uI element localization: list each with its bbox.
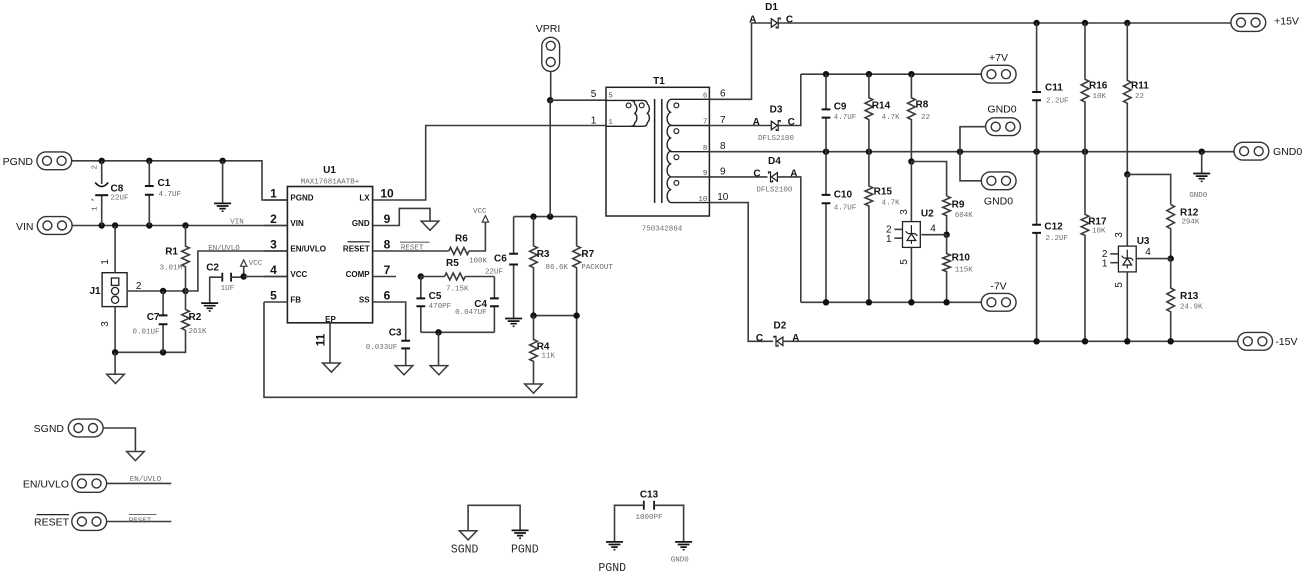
ground SGND: [107, 374, 125, 383]
pin 3 label U3: [1114, 232, 1125, 238]
svg-text:EN/UVLO: EN/UVLO: [208, 245, 240, 253]
junction: [1124, 338, 1130, 344]
junction: [1124, 20, 1130, 26]
svg-text:A: A: [792, 333, 799, 344]
svg-text:R17: R17: [1088, 217, 1107, 228]
pin 6 inner label T1: [703, 93, 708, 101]
svg-text:R4: R4: [537, 341, 550, 352]
svg-text:DFLS2100: DFLS2100: [758, 135, 795, 143]
junction: [1168, 255, 1174, 261]
svg-text:EP: EP: [325, 315, 336, 324]
capacitor C8: [92, 161, 129, 226]
wire: [264, 199, 287, 201]
svg-text:R12: R12: [1180, 208, 1199, 219]
svg-text:6: 6: [703, 93, 708, 101]
pin 3 label J1: [100, 321, 111, 327]
pin 7 inner label T1: [703, 119, 708, 127]
svg-text:1: 1: [591, 116, 597, 127]
svg-text:5: 5: [591, 89, 597, 100]
svg-text:C3: C3: [389, 328, 402, 339]
svg-text:C2: C2: [206, 263, 219, 274]
svg-text:294K: 294K: [1181, 219, 1200, 227]
IC U1 MAX17681AATB+: [287, 165, 372, 324]
terminal EN/UVLO: [23, 475, 107, 493]
wire: [550, 99, 606, 101]
svg-text:10K: 10K: [1092, 228, 1106, 236]
resistor R17: [1081, 152, 1107, 342]
svg-text:R2: R2: [189, 312, 202, 323]
junction: [866, 71, 872, 77]
pin 10 label U1: [380, 186, 394, 200]
junction: [146, 158, 152, 164]
junction: [866, 149, 872, 155]
wire: [549, 100, 551, 216]
svg-text:A: A: [749, 15, 756, 26]
ground SGND: [459, 531, 477, 540]
svg-text:RESET: RESET: [343, 245, 370, 254]
resistor R10: [943, 235, 974, 303]
wire: [910, 247, 912, 302]
wire: [709, 203, 773, 342]
wire: [960, 152, 981, 181]
svg-text:7: 7: [720, 115, 726, 126]
wire: [264, 301, 287, 303]
svg-text:EN/UVLO: EN/UVLO: [130, 476, 162, 484]
svg-text:2: 2: [136, 281, 142, 292]
capacitor C3: [366, 328, 410, 366]
svg-text:RESET: RESET: [34, 517, 70, 529]
wire: [107, 482, 172, 484]
svg-text:C1: C1: [158, 178, 171, 189]
wire: [801, 301, 982, 303]
wire: [960, 127, 986, 152]
svg-text:1: 1: [1102, 258, 1108, 269]
junction: [182, 222, 188, 228]
net label EN/UVLO: [130, 476, 162, 484]
diode D2: [756, 320, 799, 346]
svg-text:2.2UF: 2.2UF: [1046, 235, 1069, 243]
label U2: [921, 208, 934, 219]
terminal PGND wire: [70, 161, 287, 200]
svg-text:R9: R9: [952, 200, 965, 211]
wire: [468, 505, 520, 530]
svg-text:R14: R14: [872, 101, 891, 112]
wire: [396, 302, 406, 341]
junction: [1199, 149, 1205, 155]
junction: [160, 349, 166, 355]
svg-text:C10: C10: [834, 190, 853, 201]
wire: [264, 225, 287, 227]
wire: [264, 250, 287, 252]
capacitor C11: [1032, 23, 1068, 152]
svg-text:3: 3: [270, 237, 277, 251]
svg-text:9: 9: [384, 212, 391, 226]
junction: [547, 213, 553, 219]
svg-text:SGND: SGND: [34, 423, 65, 435]
junction: [99, 158, 105, 164]
junction: [1168, 338, 1174, 344]
junction: [908, 71, 914, 77]
svg-text:D2: D2: [774, 320, 787, 331]
ground SGND: [127, 452, 145, 461]
svg-text:R15: R15: [874, 187, 893, 198]
svg-text:PACKOUT: PACKOUT: [581, 264, 613, 272]
wire: [1127, 174, 1170, 204]
pin 4 label U1: [270, 263, 277, 277]
ground SGND: [525, 384, 543, 393]
ground PGND: [214, 203, 231, 211]
wire: [801, 73, 982, 75]
junction: [99, 222, 105, 228]
junction: [908, 158, 914, 164]
svg-text:VIN: VIN: [290, 219, 304, 228]
wire: [911, 162, 946, 197]
label SGND: [451, 544, 479, 557]
svg-text:+15V: +15V: [1274, 16, 1299, 28]
svg-text:115K: 115K: [955, 267, 974, 275]
svg-text:VIN: VIN: [16, 221, 34, 233]
svg-text:SGND: SGND: [451, 544, 479, 557]
resistor R9: [943, 196, 974, 235]
pin 1 label J1: [100, 259, 111, 265]
svg-text:PGND: PGND: [290, 194, 313, 203]
terminal +7V: [981, 52, 1016, 83]
junction: [219, 158, 225, 164]
ground C2: [201, 303, 218, 311]
svg-text:1: 1: [886, 234, 892, 245]
pin 8 inner label T1: [703, 145, 708, 153]
svg-text:A: A: [790, 168, 797, 179]
svg-text:4: 4: [1145, 247, 1151, 258]
terminal VIN: [16, 217, 72, 235]
junction: [435, 329, 441, 335]
wire: [373, 301, 396, 303]
pin 11 label U1: [314, 333, 328, 346]
ground SGND: [421, 221, 439, 230]
wire: [373, 199, 396, 201]
terminal VIN wire: [71, 225, 287, 227]
net label EN/UVLO: [208, 245, 240, 253]
pin 1 stub U3: [1102, 258, 1119, 269]
capacitor C5: [416, 277, 451, 333]
svg-text:VCC: VCC: [473, 208, 487, 216]
pin 9 label U1: [384, 212, 391, 226]
svg-text:1: 1: [608, 119, 613, 127]
wire: [465, 276, 494, 278]
pin 6 label T1: [720, 89, 726, 100]
wire: [469, 223, 485, 252]
svg-text:R5: R5: [446, 258, 459, 269]
svg-text:D3: D3: [770, 105, 783, 116]
label U3: [1137, 236, 1150, 247]
capacitor C12: [1032, 152, 1068, 342]
pin 5 label U1: [270, 288, 277, 302]
pin 6 label U1: [384, 288, 391, 302]
wire: [396, 126, 606, 201]
svg-text:EN/UVLO: EN/UVLO: [290, 245, 326, 254]
capacitor C10: [822, 152, 857, 303]
wire: [421, 276, 445, 278]
svg-text:R7: R7: [581, 249, 594, 260]
svg-text:604K: 604K: [955, 212, 974, 220]
wire: [329, 323, 331, 363]
junction: [908, 299, 914, 305]
svg-text:6: 6: [384, 288, 391, 302]
pin 3 label U1: [270, 237, 277, 251]
svg-text:3.01M: 3.01M: [159, 265, 182, 273]
svg-text:100K: 100K: [469, 258, 488, 266]
svg-text:C13: C13: [640, 489, 659, 500]
net label RESET: [400, 242, 430, 252]
svg-text:9: 9: [703, 170, 708, 178]
resistor R1: [159, 226, 189, 292]
svg-text:86.6K: 86.6K: [546, 264, 569, 272]
svg-text:C: C: [753, 168, 760, 179]
wire: [396, 250, 449, 252]
wire: [373, 225, 396, 227]
svg-text:C7: C7: [147, 312, 160, 323]
wire: [921, 234, 946, 236]
svg-text:4.7UF: 4.7UF: [834, 204, 857, 212]
svg-text:7: 7: [384, 263, 391, 277]
svg-text:SS: SS: [359, 296, 370, 305]
svg-text:22: 22: [1135, 93, 1144, 101]
diode D1: [749, 2, 793, 28]
terminal RESET: [34, 513, 107, 531]
wire: [421, 331, 495, 333]
wire: [373, 250, 396, 252]
svg-text:C6: C6: [494, 254, 507, 265]
junction: [823, 299, 829, 305]
junction: [146, 222, 152, 228]
svg-text:C5: C5: [429, 291, 442, 302]
junction: [1033, 149, 1039, 155]
wire: [186, 251, 288, 291]
junction: [1124, 171, 1130, 177]
capacitor C4: [455, 277, 499, 333]
svg-text:PGND: PGND: [598, 562, 626, 575]
wire: [1201, 152, 1203, 174]
svg-text:4: 4: [930, 224, 936, 235]
ground SGND: [323, 363, 341, 372]
pin 1 stub U2: [886, 234, 903, 245]
junction: [418, 273, 424, 279]
resistor R4: [530, 316, 556, 384]
wire: [534, 315, 577, 317]
wire: [910, 162, 912, 222]
svg-text:T1: T1: [653, 76, 665, 87]
wire: [396, 208, 430, 225]
svg-text:LX: LX: [359, 194, 370, 203]
svg-text:-15V: -15V: [1275, 336, 1297, 348]
resistor R7: [573, 217, 614, 316]
wire: [709, 151, 1234, 153]
svg-text:RESET: RESET: [401, 245, 424, 253]
svg-text:4: 4: [270, 263, 277, 277]
junction: [943, 232, 949, 238]
svg-text:VPRI: VPRI: [536, 23, 561, 35]
svg-text:9: 9: [720, 166, 726, 177]
junction: [866, 299, 872, 305]
svg-text:2.2UF: 2.2UF: [1046, 98, 1069, 106]
svg-text:0.033UF: 0.033UF: [366, 344, 398, 352]
svg-text:U3: U3: [1137, 236, 1150, 247]
resistor R14: [865, 74, 900, 152]
wire: [373, 276, 396, 278]
svg-text:5: 5: [1114, 282, 1125, 288]
junction: [530, 213, 536, 219]
svg-text:4.7K: 4.7K: [882, 114, 901, 122]
svg-text:U1: U1: [323, 165, 336, 176]
pin 2 label U1: [270, 212, 277, 226]
terminal +15V: [1231, 14, 1299, 32]
shunt reference U3: [1118, 246, 1136, 272]
svg-text:22UF: 22UF: [111, 195, 129, 203]
capacitor C9: [822, 74, 857, 152]
wire: [127, 290, 185, 292]
svg-text:C9: C9: [834, 102, 847, 113]
terminal VPRI: [536, 23, 561, 72]
terminal SGND: [34, 419, 103, 437]
junction: [547, 97, 553, 103]
wire: [709, 176, 767, 178]
wire: [1136, 258, 1171, 260]
junction: [573, 312, 579, 318]
svg-text:R13: R13: [1180, 291, 1199, 302]
wire: [778, 22, 1231, 24]
junction: [957, 149, 963, 155]
transformer T1: [606, 76, 709, 233]
wire: [222, 161, 224, 204]
svg-text:1: 1: [100, 259, 111, 265]
svg-text:8: 8: [703, 145, 708, 153]
power flag VCC: [473, 208, 489, 223]
junction: [112, 222, 118, 228]
pin 4 label U2: [930, 224, 936, 235]
svg-text:5: 5: [608, 93, 613, 101]
wire: [114, 352, 116, 374]
wire: [107, 521, 172, 523]
wire: [114, 226, 116, 273]
svg-text:24.9K: 24.9K: [1180, 303, 1203, 311]
ground PGND: [606, 542, 623, 550]
terminal PGND: [3, 152, 72, 170]
svg-text:R6: R6: [455, 233, 468, 244]
shunt reference U2: [903, 222, 921, 248]
junction: [823, 149, 829, 155]
ground PGND: [512, 530, 529, 538]
pin 1 label T1: [591, 116, 597, 127]
junction: [943, 299, 949, 305]
terminal -15V: [1238, 332, 1298, 350]
junction: [530, 312, 536, 318]
svg-text:D1: D1: [765, 2, 778, 13]
svg-text:GND0: GND0: [984, 195, 1013, 207]
svg-text:R1: R1: [165, 247, 178, 258]
pin 1 label U1: [270, 186, 277, 200]
junction: [112, 349, 118, 355]
pin 5 inner label T1: [608, 93, 613, 101]
pin 4 label U3: [1145, 247, 1151, 258]
resistor R2: [182, 291, 207, 336]
resistor R11: [1124, 23, 1150, 174]
svg-text:-7V: -7V: [990, 281, 1006, 293]
svg-text:R11: R11: [1131, 80, 1149, 91]
terminal -7V: [981, 281, 1016, 311]
svg-text:4.7UF: 4.7UF: [159, 191, 182, 199]
resistor R5: [445, 258, 469, 293]
ground SGND: [395, 366, 413, 375]
svg-text:1: 1: [270, 186, 277, 200]
wire: [709, 125, 771, 127]
power flag VCC: [241, 260, 263, 277]
svg-text:DFLS2100: DFLS2100: [756, 187, 793, 195]
svg-text:22UF: 22UF: [485, 268, 503, 276]
ground GND0: [675, 542, 692, 550]
junction: [823, 71, 829, 77]
svg-text:FB: FB: [290, 296, 301, 305]
junction: [1082, 20, 1088, 26]
svg-text:8: 8: [720, 141, 726, 152]
wire: [264, 302, 577, 397]
svg-text:U2: U2: [921, 208, 934, 219]
svg-text:C: C: [756, 333, 763, 344]
capacitor C1: [145, 161, 181, 226]
net label VIN: [230, 218, 244, 226]
terminal GND0: [981, 172, 1016, 208]
wire: [264, 276, 287, 278]
wire: [114, 307, 116, 353]
resistor R8: [908, 74, 930, 161]
wire: [115, 330, 185, 352]
svg-text:750342864: 750342864: [642, 225, 683, 233]
svg-text:1 *: 1 *: [92, 197, 100, 211]
svg-text:PGND: PGND: [511, 544, 539, 557]
junction: [160, 288, 166, 294]
pin 5 label U2: [899, 259, 910, 265]
svg-text:C: C: [786, 15, 793, 26]
svg-text:10: 10: [717, 192, 729, 203]
junction: [241, 273, 247, 279]
capacitor C2: [206, 263, 243, 304]
junction: [182, 288, 188, 294]
resistor R16: [1081, 23, 1108, 152]
svg-text:470PF: 470PF: [429, 303, 452, 311]
wire: [778, 74, 801, 125]
svg-text:GND0: GND0: [1273, 146, 1302, 158]
wire: [550, 72, 552, 101]
svg-text:+7V: +7V: [989, 52, 1008, 64]
svg-text:R3: R3: [537, 249, 550, 260]
resistor R15: [865, 152, 900, 303]
label PGND: [598, 562, 626, 575]
svg-text:22: 22: [921, 114, 930, 122]
junction: [1082, 338, 1088, 344]
ground SGND: [430, 366, 448, 375]
pin 8 label U1: [384, 237, 391, 251]
label GND0: [671, 557, 690, 565]
capacitor C7: [132, 291, 167, 352]
svg-text:261K: 261K: [189, 328, 208, 336]
svg-text:0.047UF: 0.047UF: [455, 309, 487, 317]
pin 3 label U2: [899, 209, 910, 215]
svg-text:7.15K: 7.15K: [446, 285, 469, 293]
pin 7 label T1: [720, 115, 726, 126]
net label RESET: [129, 515, 157, 526]
terminal GND0: [1234, 142, 1302, 160]
wire: [709, 23, 771, 99]
capacitor C13: [615, 489, 684, 542]
